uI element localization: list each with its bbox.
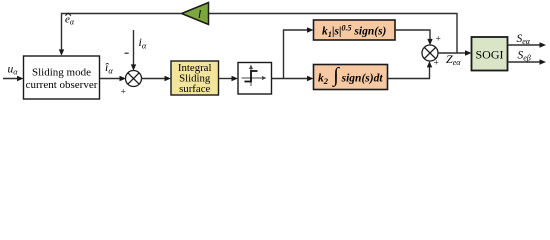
wire S_e_alpha output — [508, 44, 543, 46]
wire k2 output to sum2 bottom — [388, 65, 430, 79]
summing junction S2 — [422, 45, 438, 61]
wire integral box to sign block — [219, 78, 235, 80]
sign minus at S1 — [125, 52, 129, 54]
gain triangle l — [182, 3, 209, 25]
block SOGI — [472, 37, 508, 71]
block integral sliding surface — [171, 61, 219, 95]
wire triangle output to observer top — [62, 14, 182, 53]
wire branch tap up to k1 — [284, 30, 311, 79]
summing junction S1 — [126, 71, 142, 87]
svg-text:+: + — [436, 35, 441, 45]
svg-text:l: l — [198, 9, 201, 21]
block sliding mode current observer — [24, 56, 100, 99]
step curve — [245, 71, 258, 82]
svg-text:surface: surface — [179, 83, 210, 95]
block k1 |s|^0.5 sign(s) — [314, 20, 396, 40]
wire S1 to integral box — [141, 78, 168, 80]
svg-text:Sliding mode: Sliding mode — [32, 67, 91, 79]
wire sign block to k2 (main line) — [272, 78, 311, 80]
svg-text:+: + — [121, 88, 126, 98]
svg-text:k1|s|0.5 sign(s): k1|s|0.5 sign(s) — [322, 24, 387, 40]
svg-text:SOGI: SOGI — [475, 48, 503, 62]
wire k1 output to sum2 top — [395, 30, 430, 42]
wire i_alpha input down into S1 — [133, 30, 135, 68]
wire u_alpha input arrow — [3, 78, 20, 80]
svg-text:current observer: current observer — [26, 79, 98, 91]
wire S_e_beta output — [508, 61, 543, 63]
wire feedback tap up and left to gain triangle — [209, 14, 458, 54]
block k2 integral sign(s)dt — [314, 65, 388, 90]
axes — [242, 68, 265, 87]
svg-text:+: + — [434, 59, 439, 69]
block sign function — [238, 63, 272, 95]
wire observer output to sum1 — [100, 78, 123, 80]
wire Z_ea output to SOGI — [438, 52, 469, 54]
